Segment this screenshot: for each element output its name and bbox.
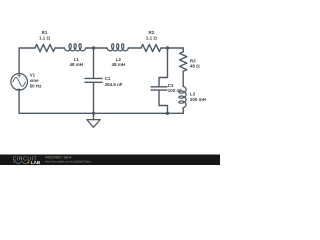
svg-text:V1: V1	[30, 72, 36, 77]
wire R1 to L1	[55, 47, 65, 49]
svg-text:48 mH: 48 mH	[70, 62, 84, 67]
ground triangle	[87, 120, 100, 128]
capacitor C1 top lead	[93, 48, 95, 78]
svg-text:sine: sine	[30, 78, 40, 83]
wire L2 to R2	[128, 47, 141, 49]
svg-text:http://circuitlab.com/c/p2j6qk: http://circuitlab.com/c/p2j6qk7dbkq	[45, 159, 91, 163]
wire node B down to C3	[159, 48, 168, 87]
svg-text:100 nF: 100 nF	[168, 88, 183, 93]
voltage source V1 circle	[11, 74, 28, 91]
node C junction dot	[166, 112, 169, 115]
svg-text:LAB: LAB	[31, 160, 41, 165]
svg-text:48 mH: 48 mH	[112, 62, 126, 67]
wire L1 to node A to L2	[86, 47, 107, 49]
wire right branch top lead	[182, 48, 184, 52]
ground stem	[93, 113, 95, 119]
wire L3 to bottom-right corner	[182, 108, 184, 114]
capacitor C1 bottom lead	[93, 82, 95, 113]
inductor L3	[179, 87, 186, 108]
logo sine squiggle	[13, 162, 27, 164]
resistor R3	[180, 52, 187, 71]
svg-text:1.1 Ω: 1.1 Ω	[39, 35, 51, 40]
wire bottom rail	[19, 112, 183, 114]
wire V1 bottom lead	[18, 90, 20, 113]
wire R3 to L3	[182, 71, 184, 86]
V1 minus sign	[17, 88, 20, 90]
inductor L2	[107, 44, 128, 51]
V1 sine symbol	[13, 78, 26, 87]
svg-text:50 Hz: 50 Hz	[30, 84, 43, 89]
node A junction dot	[92, 46, 95, 49]
wire C3 to bottom rail	[159, 90, 168, 113]
resistor R1	[35, 44, 55, 51]
inductor L1	[65, 44, 86, 51]
svg-text:1.1 Ω: 1.1 Ω	[146, 35, 158, 40]
ground node junction dot	[92, 112, 95, 115]
svg-text:264.5 nF: 264.5 nF	[105, 82, 123, 87]
node B junction dot	[166, 46, 169, 49]
capacitor C1 plates	[85, 78, 102, 82]
svg-text:R1: R1	[42, 30, 48, 35]
svg-text:200 mH: 200 mH	[190, 97, 206, 102]
wire V1 top lead to R1	[19, 48, 35, 74]
capacitor C3 plates	[151, 87, 167, 90]
resistor R2	[141, 44, 161, 51]
wire R2 to node B to top-right corner	[161, 47, 183, 49]
watermark bar	[0, 155, 220, 166]
logo lightning bolt	[27, 160, 29, 164]
V1 plus sign	[18, 74, 21, 77]
svg-text:C1: C1	[105, 76, 111, 81]
svg-text:48 Ω: 48 Ω	[190, 64, 200, 69]
svg-text:R2: R2	[149, 30, 155, 35]
